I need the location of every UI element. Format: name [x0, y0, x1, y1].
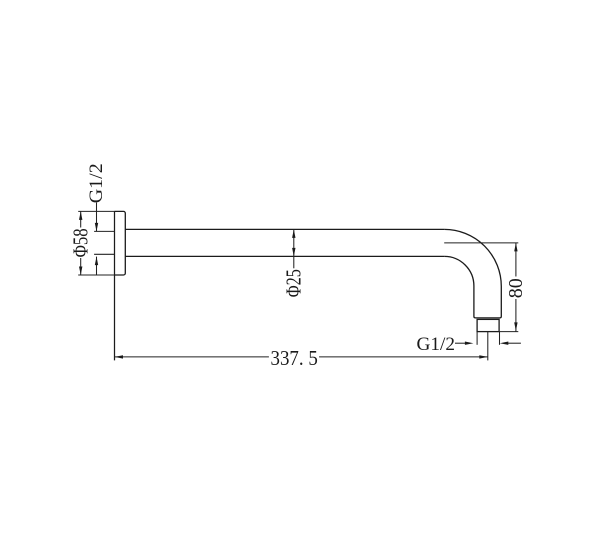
dimension 80: arrows [514, 243, 517, 331]
dimension Phi25: dimension line with tail [293, 229, 295, 268]
dimension Phi58: dimension line [80, 211, 82, 275]
dimension Phi58: arrows [79, 211, 82, 275]
dimension G1/2 outlet: extension lines [477, 332, 499, 345]
pipe bend and vertical outlet tube [444, 229, 501, 318]
svg-text:Φ58: Φ58 [68, 228, 92, 257]
dimension G1/2 inlet: label [86, 163, 107, 203]
dimension G1/2 outlet: left leader with arrow [455, 342, 465, 344]
outlet nut [477, 319, 499, 331]
svg-text:80: 80 [505, 278, 527, 298]
dimension 337.5: arrows [115, 355, 488, 358]
dimension 337.5: right extension line [487, 332, 489, 361]
dimension G1/2 outlet: label [417, 334, 456, 355]
dimension 80: label [505, 278, 527, 298]
dimension G1/2 inlet: leader lower with arrow [96, 257, 98, 275]
dimension Phi25: arrows [292, 229, 295, 256]
dimension G1/2 outlet: right leader with arrow [508, 342, 521, 344]
dimension Phi58: extension lines [78, 211, 114, 275]
nut bottom extension line (right, for dimension 80) [499, 331, 518, 333]
dimension 337.5: dimension line [115, 356, 488, 358]
svg-text:G1/2: G1/2 [86, 163, 107, 203]
dimension Phi58: label [68, 228, 92, 257]
dimension 80: dimension line [515, 243, 517, 332]
svg-text:337. 5: 337. 5 [271, 347, 318, 370]
svg-text:G1/2: G1/2 [417, 334, 456, 355]
dimension Phi25: label [281, 269, 305, 297]
pipe bottom line [125, 255, 444, 257]
dimension 80: centreline extension [444, 242, 518, 244]
pipe top line [125, 228, 444, 230]
svg-text:Φ25: Φ25 [281, 269, 305, 297]
wall face / left extension line of dimension 337.5 [114, 211, 116, 360]
inlet thread line lower [94, 253, 114, 255]
inlet thread line upper [94, 230, 114, 232]
dimension 337.5: label [271, 347, 318, 370]
dimension G1/2 inlet: leader upper with arrow [96, 203, 98, 232]
flange (wall plate, side view) [115, 211, 126, 275]
